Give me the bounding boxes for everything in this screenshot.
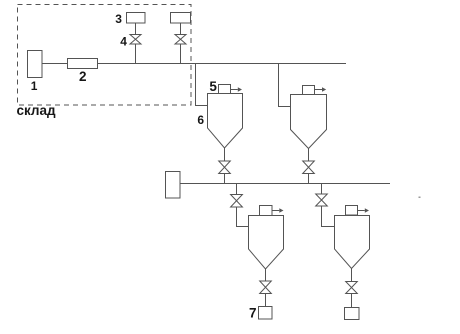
wire lower pipe: [180, 183, 390, 185]
svg-text:5: 5: [209, 79, 217, 94]
wire cyclone2 apex to valve: [308, 149, 310, 162]
vent on cyclone3: [260, 206, 273, 216]
wire top pipe: [98, 63, 347, 65]
wire filter3b to valve4b: [180, 23, 182, 35]
wire valve to cyclone3 inlet: [237, 207, 249, 227]
vent on cyclone4: [346, 206, 358, 216]
svg-text:4: 4: [120, 34, 127, 48]
valve under cyclone1: [219, 161, 231, 174]
hopper 1: [28, 51, 43, 78]
blower (lower feeder): [166, 172, 181, 199]
filter 3a: [127, 13, 146, 24]
valve under cyclone4: [346, 282, 358, 294]
wire branch to valve (cyclone4 feed): [321, 184, 323, 195]
valve on branch4: [316, 194, 328, 206]
valve under cyclone2: [303, 161, 315, 174]
wire filter3a to valve4a: [135, 23, 137, 35]
svg-text:6: 6: [197, 113, 204, 127]
wire drop to cyclone2 inlet: [279, 64, 291, 107]
wire branch to valve (cyclone3 feed): [236, 184, 238, 195]
wire cyclone4 apex to valve: [351, 269, 353, 282]
arrow out of cyclone2 vent: [315, 89, 323, 91]
wire valve4a to pipe: [135, 44, 137, 64]
svg-text:7: 7: [249, 306, 257, 321]
wire valve to lower pipe: [308, 174, 310, 184]
feeder 2: [68, 59, 98, 69]
warehouse boundary (склад) dashed box: [18, 5, 192, 106]
arrow out of cyclone4 vent: [358, 210, 365, 212]
bin (right, unlabeled): [345, 308, 360, 320]
wire valve to lower pipe: [224, 174, 226, 184]
wire drop to cyclone1 inlet: [196, 64, 208, 106]
wire valve to bin: [351, 294, 353, 308]
stray mark: [419, 197, 421, 199]
vent 5 on cyclone1: [219, 85, 231, 94]
wire valve to bin7: [265, 294, 267, 307]
wire valve4b to pipe: [180, 44, 182, 64]
valve on branch3: [231, 195, 243, 208]
cyclone 3 (bottom left): [249, 216, 284, 270]
svg-text:склад: склад: [17, 103, 57, 118]
wire cyclone1 apex to valve: [224, 148, 226, 161]
filter 3b: [171, 13, 191, 24]
svg-text:3: 3: [115, 12, 122, 26]
valve 4a: [130, 35, 141, 45]
wire hopper1 to feeder2: [42, 63, 68, 65]
wire cyclone3 apex to valve: [265, 269, 267, 281]
wire valve to cyclone4 inlet: [322, 206, 335, 227]
svg-text:1: 1: [31, 79, 38, 93]
arrow out of vent5: [231, 89, 238, 91]
svg-text:2: 2: [79, 69, 87, 84]
arrow out of cyclone3 vent: [272, 210, 279, 212]
cyclone 4 (bottom right): [335, 216, 370, 269]
valve under cyclone3: [260, 281, 272, 294]
cyclone 6 (first): [208, 94, 243, 149]
cyclone 2 (top right): [291, 95, 327, 149]
bin 7: [259, 307, 273, 320]
vent on cyclone2: [303, 86, 315, 95]
valve 4b: [175, 35, 186, 45]
